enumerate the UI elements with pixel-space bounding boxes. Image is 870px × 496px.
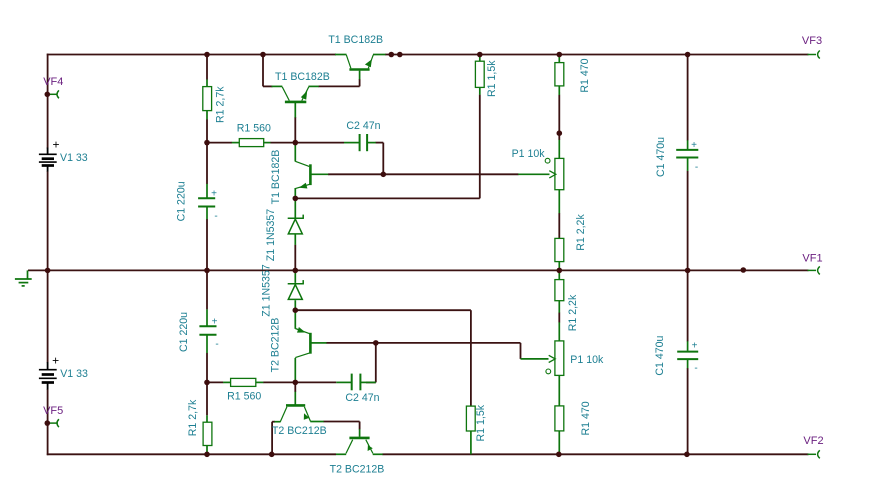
resistor R1 1,5k upper — [475, 61, 484, 87]
wire left battery column lower — [47, 270, 49, 362]
wire T2 base lead at x359 — [359, 429, 361, 437]
svg-text:P1 10k: P1 10k — [512, 148, 546, 160]
capacitor C1 470u upper — [676, 150, 698, 158]
node F R1 560 lower left — [204, 380, 210, 386]
node terminal VF4 — [45, 92, 51, 98]
resistor R1 2,2k lower — [555, 280, 564, 301]
svg-text:C1 220u: C1 220u — [176, 181, 188, 221]
wire C1 220u lower top lead — [206, 270, 208, 309]
battery V1 lower — [39, 362, 57, 390]
svg-text:R1 470: R1 470 — [579, 58, 591, 92]
svg-text:R1 1,5k: R1 1,5k — [475, 404, 487, 441]
wire R1 560 lower leads — [223, 381, 231, 383]
node terminal VF5 — [45, 420, 51, 426]
wire bottom rail green piece right of T2 — [373, 453, 383, 455]
node G R1 560 lower right — [293, 380, 299, 386]
resistor R1 1,5k lower — [466, 406, 475, 431]
wire bottom rail right segment — [382, 453, 808, 455]
wire C1 470u lower leads — [687, 341, 689, 351]
wire T1 emitter to T1 base at y86 — [318, 85, 359, 87]
potentiometer P1 upper wiper arrow — [549, 171, 556, 178]
wire T1 base column above node — [294, 117, 296, 143]
svg-text:V1 33: V1 33 — [60, 152, 88, 164]
wire C2 upper right drop — [382, 143, 384, 175]
wire P1 upper bottom lead — [558, 189, 560, 213]
resistor R1 2,7k upper — [203, 87, 212, 111]
transistor T1 upper pass BC182B — [346, 55, 373, 70]
potentiometer P1 lower body — [555, 341, 564, 376]
node middle rail x207 — [204, 268, 210, 274]
wire top rail green piece left of T1 — [335, 54, 347, 56]
svg-text:C1 470u: C1 470u — [654, 335, 666, 375]
wire node to P1 upper top — [558, 133, 560, 140]
wire T2 error base lead — [312, 342, 327, 344]
node middle rail x743 — [741, 267, 747, 273]
wire C1 220u lower leads — [206, 309, 208, 326]
svg-text:VF4: VF4 — [43, 76, 63, 88]
wire T1 error collector lead — [294, 143, 296, 162]
wire R1 1,5k lower bottom lead — [470, 431, 472, 455]
svg-text:C2 47n: C2 47n — [346, 120, 380, 132]
node top rail x263 — [260, 52, 266, 58]
wire T2 base riser at x359 — [359, 422, 361, 430]
wire R1 2,2k upper leads — [558, 261, 560, 270]
svg-text:Z1 1N5357: Z1 1N5357 — [265, 209, 277, 262]
wire lower battery to bottom rail corner — [47, 389, 49, 455]
wire node row left of R1 560 — [207, 142, 232, 144]
potentiometer P1 upper body — [555, 158, 564, 189]
wire P1 upper top lead — [558, 140, 560, 159]
wire left battery column upper — [47, 54, 49, 149]
wire C1 470u lower top lead — [687, 270, 689, 341]
transistor T1 error amp BC182B — [295, 161, 310, 188]
node top rail x688 — [685, 52, 691, 58]
wire R1 2,7k upper leads — [206, 80, 208, 88]
node B R1 560 right — [293, 140, 299, 146]
wire R1 1,5k upper leads — [479, 55, 481, 62]
terminal VF5 — [49, 419, 59, 427]
node middle rail x295 — [293, 268, 299, 274]
wire node to C2 lower — [295, 381, 336, 383]
svg-text:P1 10k: P1 10k — [570, 354, 604, 366]
terminal VF4 — [49, 90, 59, 98]
wire R1 470 upper leads — [558, 55, 560, 64]
wire R1 2,7k upper top lead from rail — [206, 55, 208, 80]
wire Z1 upper bottom to middle rail — [294, 245, 296, 271]
node A R1 560 left — [204, 140, 210, 146]
svg-text:R1 560: R1 560 — [227, 390, 261, 402]
svg-text:VF2: VF2 — [803, 435, 823, 447]
wire C1 470u upper leads — [687, 140, 689, 149]
wire R1 560 upper leads — [232, 142, 240, 144]
node zener lower junction — [293, 307, 299, 313]
wire top rail left segment — [47, 54, 336, 56]
resistor R1 470 upper — [555, 63, 564, 86]
wire T2 error collector lead — [294, 358, 296, 383]
zener Z1 1N5357 upper — [288, 215, 304, 234]
wire T1 collector horizontal — [263, 85, 273, 87]
potentiometer P1 upper turn circle — [545, 158, 550, 163]
wire C2 lower right lead horizontal — [366, 381, 376, 383]
wire T2 collector lead at y421 — [275, 421, 281, 423]
wire emitter node horizontal y198 — [295, 197, 480, 199]
wire Z2 lower node horizontal y310 — [295, 309, 471, 311]
svg-text:T2 BC212B: T2 BC212B — [270, 318, 282, 373]
wire T1 base drop at x359 — [359, 79, 361, 86]
svg-text:T1 BC182B: T1 BC182B — [328, 34, 383, 46]
zener Z1 1N5357 lower — [288, 280, 304, 299]
wire T2 base column below node — [294, 382, 296, 392]
svg-text:R1 2,7k: R1 2,7k — [187, 399, 199, 436]
svg-text:+: + — [692, 340, 698, 351]
wire T1 collector riser at x263 — [262, 55, 264, 87]
wire R1 2,7k upper bottom to node — [206, 119, 208, 142]
terminal VF1 — [808, 266, 820, 274]
resistor R1 560 upper — [239, 139, 263, 147]
wire R1 470 upper bottom lead — [558, 95, 560, 133]
wire R1 2,2k lower mid lead — [558, 313, 560, 323]
wire C1 470u upper top lead — [687, 55, 689, 141]
wire top rail green piece right of T1 — [373, 54, 386, 56]
wire T2 emitter lead at y421 — [310, 421, 323, 423]
wire C1 470u upper bottom lead — [687, 171, 689, 271]
node bottom rail x688 — [684, 452, 690, 458]
svg-text:Z1 1N5357: Z1 1N5357 — [261, 264, 273, 317]
node top rail x400 — [397, 52, 403, 58]
wire C2 47n lower leads — [336, 381, 351, 383]
wire T1 emitter lead at y86 — [309, 85, 319, 87]
wire T1 error base lead — [312, 173, 329, 175]
wire middle rail — [28, 269, 809, 271]
svg-text:R1 2,2k: R1 2,2k — [575, 214, 587, 251]
node top rail x559 — [557, 52, 563, 58]
wire Z1 upper leads — [294, 198, 296, 217]
wire R1 1,5k lower riser — [470, 310, 472, 406]
node E pot top junction — [557, 130, 563, 136]
wire top rail right segment — [385, 54, 809, 56]
ground — [15, 270, 32, 286]
wire node to C2 upper — [295, 142, 344, 144]
wire T2 emitter to T2 base at y421 — [323, 421, 359, 423]
capacitor C1 220u lower — [199, 326, 216, 334]
wire R1 2,2k lower leads — [558, 270, 560, 280]
wire T2 collector horizontal stub — [272, 421, 275, 423]
wire T2 base net horizontal y343 — [326, 342, 520, 344]
wire T1 base net to P1 wiper — [328, 173, 519, 175]
svg-text:+: + — [212, 317, 218, 328]
wire node row left of R1 560 lower — [207, 381, 223, 383]
wire C1 220u lower bottom lead — [206, 353, 208, 383]
wire C1 220u upper bottom lead — [206, 219, 208, 270]
svg-text:T1 BC182B: T1 BC182B — [275, 71, 330, 83]
wire T2 base lead at x295 — [294, 392, 296, 405]
wire T2 error emitter lead — [294, 310, 296, 329]
node top rail x480 — [477, 52, 483, 58]
terminal VF3 — [808, 51, 820, 59]
svg-text:R1 470: R1 470 — [580, 401, 592, 435]
node base net lower junction — [373, 340, 379, 346]
resistor R1 2,7k lower — [203, 422, 212, 445]
svg-text:R1 2,7k: R1 2,7k — [215, 86, 227, 123]
svg-text:C2 47n: C2 47n — [345, 392, 379, 404]
resistor R1 470 lower — [555, 406, 564, 431]
wire C2 lower right riser — [375, 345, 377, 383]
node bottom rail x272 — [269, 452, 275, 458]
transistor T2 lower pass BC212B — [346, 438, 373, 454]
wire T1 base lead at x295 — [294, 103, 296, 118]
node middle rail battery — [45, 268, 51, 274]
transistor T2 driver BC212B — [280, 405, 310, 421]
node bottom rail x207 — [204, 452, 210, 458]
svg-text:+: + — [211, 189, 217, 200]
capacitor C2 47n upper — [360, 134, 368, 151]
wire P1 lower wiper lead — [521, 358, 549, 360]
wire node row right of R1 560 lower — [263, 381, 295, 383]
node bottom rail x559 — [556, 452, 562, 458]
wire C1 220u upper leads — [206, 184, 208, 198]
wire R1 470 lower bottom lead — [558, 431, 560, 455]
svg-text:R1 1,5k: R1 1,5k — [486, 60, 498, 97]
wire P1 upper wiper lead — [518, 173, 549, 175]
wire T2 base net drop to wiper level — [520, 343, 522, 359]
wire T1 collector lead at y86 — [272, 85, 283, 87]
resistor R1 2,2k upper — [555, 238, 564, 261]
capacitor C2 47n lower — [352, 374, 361, 391]
svg-text:-: - — [214, 211, 217, 222]
wire T1 base lead at x359 — [359, 71, 361, 80]
wire C1 470u lower bottom lead — [687, 368, 689, 454]
svg-text:-: - — [694, 363, 697, 374]
svg-text:-: - — [695, 162, 698, 173]
potentiometer P1 lower turn circle — [546, 369, 551, 374]
resistor R1 560 lower — [231, 378, 256, 386]
wire R1 2,7k lower leads — [206, 415, 208, 422]
node D emitter-zener junction — [293, 196, 299, 202]
transistor T2 error amp BC212B — [295, 327, 310, 358]
wire C1 220u upper top lead — [206, 143, 208, 184]
wire P1 upper bottom to R1 2,2k — [558, 213, 560, 238]
svg-text:VF1: VF1 — [802, 253, 822, 265]
wire Z2 lower leads — [294, 270, 296, 283]
transistor T1 driver BC182B — [282, 87, 309, 102]
node top rail x391 — [389, 52, 395, 58]
battery V1 upper — [39, 148, 57, 172]
svg-text:T1 BC182B: T1 BC182B — [270, 150, 282, 205]
node middle rail x688 — [685, 268, 691, 274]
wire R1 2,7k lower top lead — [206, 382, 208, 415]
wire T1 error emitter lead — [294, 188, 296, 198]
potentiometer P1 lower wiper arrow — [549, 355, 556, 362]
wire C2 47n upper leads — [344, 142, 359, 144]
svg-text:T2 BC212B: T2 BC212B — [330, 463, 385, 475]
wire bottom rail green piece left of T2 — [336, 453, 346, 455]
node C base net junction — [381, 172, 387, 178]
svg-text:VF5: VF5 — [43, 405, 63, 417]
terminal VF2 — [808, 450, 820, 458]
svg-text:R1 2,2k: R1 2,2k — [567, 294, 579, 331]
svg-text:+: + — [691, 140, 697, 151]
svg-text:T2 BC212B: T2 BC212B — [272, 425, 327, 437]
svg-text:C1 220u: C1 220u — [178, 312, 190, 352]
wire P1 lower bottom lead — [558, 375, 560, 406]
svg-text:V1 33: V1 33 — [60, 368, 88, 380]
svg-text:+: + — [52, 138, 59, 152]
wire left battery column to middle rail — [47, 171, 49, 270]
capacitor C1 220u upper — [198, 198, 215, 206]
wire C2 upper right lead horizontal — [376, 142, 384, 144]
wire bottom rail left segment — [47, 453, 336, 455]
node top rail x207 — [204, 52, 210, 58]
wire T2 collector drop at x272 — [271, 422, 273, 455]
svg-text:VF3: VF3 — [802, 35, 822, 47]
wire R1 1,5k upper riser — [479, 95, 481, 199]
svg-text:+: + — [52, 353, 59, 367]
wire node row right of R1 560 — [270, 142, 295, 144]
svg-text:-: - — [215, 339, 218, 350]
node middle rail x559 — [557, 268, 563, 274]
capacitor C1 470u lower — [677, 352, 698, 360]
svg-text:C1 470u: C1 470u — [655, 137, 667, 177]
svg-text:R1 560: R1 560 — [237, 123, 271, 135]
